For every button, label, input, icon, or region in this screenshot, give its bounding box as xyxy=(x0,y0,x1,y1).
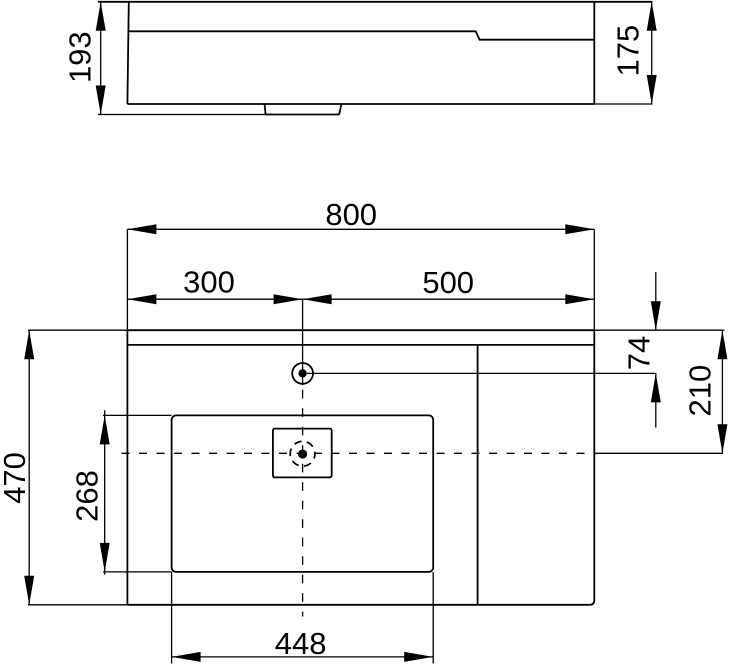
dimension line 175 xyxy=(651,2,653,104)
side view drain bump left slant xyxy=(265,104,266,115)
drain dashed circle xyxy=(290,441,315,466)
plan top edge right extension to 74/210 dims xyxy=(594,329,724,331)
arrow 175 top xyxy=(647,2,657,31)
vertical center line solid from 300/500 dim through faucet xyxy=(302,299,304,386)
arrow 74 bottom pointing up xyxy=(651,373,661,402)
arrow 268 top xyxy=(100,415,110,444)
faucet hole center line extension to 74 dim xyxy=(307,372,656,374)
svg-text:74: 74 xyxy=(622,336,657,370)
svg-text:210: 210 xyxy=(682,365,717,417)
basin right extension down to 448 dim xyxy=(432,572,434,664)
vertical center line dashed through drain xyxy=(302,390,304,617)
svg-text:268: 268 xyxy=(70,470,105,522)
dimension line 300/500 xyxy=(127,298,594,300)
basin top extension to 268 dim xyxy=(103,414,172,416)
arrow 300 left xyxy=(127,294,156,304)
side view left edge xyxy=(127,2,128,104)
side view drain bump bottom xyxy=(266,114,340,116)
plan right edge with rounded bottom corner xyxy=(590,330,595,605)
dimension line 448 xyxy=(172,656,434,658)
basin bottom extension to 268 dim xyxy=(103,571,172,573)
plan bottom edge xyxy=(127,604,589,606)
arrow 193 bottom xyxy=(96,86,106,115)
dimension 268 overshoot stubs xyxy=(104,410,106,574)
faucet center dot xyxy=(298,369,306,377)
basin left extension down to 448 dim xyxy=(171,572,173,664)
svg-text:193: 193 xyxy=(63,31,98,83)
arrow 470 bottom xyxy=(24,576,34,605)
arrow 500 right xyxy=(565,294,594,304)
side view bottom edge xyxy=(127,103,594,105)
plan deck divider line xyxy=(477,345,479,605)
dimension line 268 xyxy=(104,415,106,572)
svg-text:800: 800 xyxy=(325,197,377,232)
plan top edge left extension to 470 dim xyxy=(28,329,127,331)
side view right edge xyxy=(593,2,595,104)
drain center line solid extension to 210 dim xyxy=(597,452,723,454)
arrow 800 left xyxy=(127,224,156,234)
svg-text:500: 500 xyxy=(422,265,474,300)
svg-text:448: 448 xyxy=(275,626,327,661)
arrow 193 top xyxy=(96,2,106,31)
plan view top edge xyxy=(127,329,594,331)
faucet hole circle xyxy=(292,363,313,384)
drain square xyxy=(273,429,332,478)
dimension 74 upper tail xyxy=(655,272,657,330)
dimension line 193 xyxy=(100,2,102,115)
arrow 500 left xyxy=(303,294,332,304)
side view inner rim line with step xyxy=(128,31,594,39)
side view bottom edge right extension xyxy=(594,103,652,105)
dimension line 210 xyxy=(721,330,723,453)
plan left edge extension up to 800 dim xyxy=(126,229,128,330)
dimension line 800 xyxy=(127,228,594,230)
arrow 448 left xyxy=(172,652,201,662)
arrow 470 top xyxy=(24,330,34,359)
arrow 210 top xyxy=(717,330,727,359)
basin inner rounded rectangle xyxy=(172,415,434,572)
arrow 800 right xyxy=(565,224,594,234)
side view drain bump right slant xyxy=(339,104,341,115)
plan inner back rim line xyxy=(127,344,594,346)
drain center dot xyxy=(298,449,307,458)
svg-text:175: 175 xyxy=(611,25,646,77)
dimension line 470 xyxy=(28,330,30,605)
arrow 268 bottom xyxy=(100,543,110,572)
drain horizontal center line dashed xyxy=(122,452,598,454)
dimension 74 lower tail xyxy=(655,373,657,427)
arrow 448 right xyxy=(404,652,433,662)
plan bottom edge left extension to 470 dim xyxy=(28,604,127,606)
side view bottom extension line to 193 dim xyxy=(98,114,266,116)
arrow 300 right xyxy=(274,294,303,304)
svg-text:470: 470 xyxy=(0,452,32,504)
arrow 74 top pointing down xyxy=(651,301,661,330)
arrow 210 bottom xyxy=(717,424,727,453)
plan right edge extension up to 800 dim xyxy=(593,229,595,330)
plan left edge xyxy=(126,330,128,605)
side view top edge xyxy=(98,1,653,3)
svg-text:300: 300 xyxy=(183,265,235,300)
arrow 175 bottom xyxy=(647,75,657,104)
